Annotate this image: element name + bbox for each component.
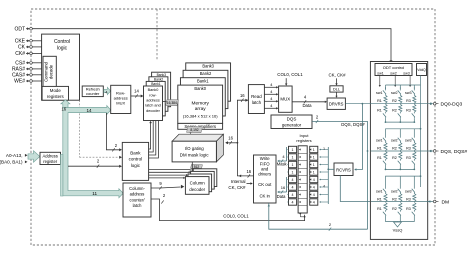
svg-text:sw1: sw1	[377, 71, 383, 75]
svg-text:Bank3: Bank3	[157, 73, 167, 77]
I/O gating DM mask logic block	[172, 134, 223, 162]
svg-text:R3: R3	[406, 99, 411, 103]
wire RCVRS to DM net	[340, 176, 371, 202]
svg-text:register: register	[43, 159, 58, 164]
svg-text:CK#: CK#	[15, 51, 25, 57]
svg-text:COL0, COL1: COL0, COL1	[223, 214, 249, 219]
svg-text:WE#: WE#	[14, 79, 25, 85]
svg-text:4: 4	[313, 178, 315, 182]
DQS net wire and pin DQS, DQS#	[370, 149, 467, 155]
svg-text:4: 4	[105, 90, 107, 94]
input pin RAS#	[12, 67, 32, 73]
column-address counter/latch block	[123, 183, 151, 217]
address register block	[40, 152, 61, 164]
svg-text:Column: Column	[190, 181, 206, 186]
bank row-address latch/decoder stack	[144, 72, 171, 120]
svg-text:1: 1	[313, 148, 315, 152]
bus label 16,384 ribbon	[166, 100, 179, 106]
svg-text:MUX: MUX	[116, 101, 125, 106]
svg-text:16: 16	[240, 93, 245, 98]
wire CS# to command decode	[32, 62, 43, 64]
svg-text:14: 14	[134, 89, 139, 94]
svg-text:DRVRS: DRVRS	[329, 102, 344, 107]
svg-text:R1: R1	[377, 99, 382, 103]
svg-text:DQS, DQS#: DQS, DQS#	[341, 122, 365, 127]
input pin ODT	[14, 26, 32, 32]
memory array bank stack	[178, 63, 231, 123]
svg-text:array: array	[195, 106, 207, 112]
svg-text:counter: counter	[86, 91, 100, 96]
svg-text:decoder: decoder	[146, 109, 160, 113]
row-address MUX block	[111, 85, 131, 113]
svg-text:R2: R2	[392, 156, 397, 160]
svg-text:sw2: sw2	[391, 138, 398, 142]
input pin CAS#	[12, 73, 32, 79]
input registers label	[296, 133, 311, 143]
chip boundary dashed border	[31, 9, 435, 245]
bus label (x16) ribbon	[190, 169, 205, 173]
svg-text:1: 1	[313, 163, 315, 167]
address register to bus trunk	[61, 155, 63, 197]
control logic block	[42, 34, 80, 100]
svg-text:R3: R3	[406, 109, 411, 113]
wire ODT to ODT control	[32, 29, 392, 64]
ODT switch/resistor group DQS, DQS#	[376, 135, 416, 166]
svg-text:R2: R2	[392, 146, 397, 150]
svg-text:16,384: 16,384	[167, 101, 177, 105]
svg-text:4: 4	[313, 186, 315, 190]
svg-text:registers: registers	[47, 94, 65, 99]
wire DQS generator to DQS net (2)	[312, 114, 368, 151]
label internal CK, CK#	[228, 179, 252, 190]
wire CK# to control logic	[32, 52, 41, 54]
svg-text:1: 1	[292, 148, 294, 152]
svg-text:1: 1	[292, 163, 294, 167]
svg-text:R2: R2	[392, 207, 397, 211]
label CK, CK# into DLL	[328, 72, 346, 85]
svg-text:Read: Read	[251, 94, 262, 99]
svg-text:R1: R1	[377, 109, 382, 113]
refresh counter block	[82, 86, 103, 97]
svg-text:DM: DM	[442, 199, 450, 205]
svg-text:1: 1	[313, 171, 315, 175]
svg-text:RCVRS: RCVRS	[336, 167, 351, 172]
svg-text:(BA0, BA1): (BA0, BA1)	[0, 160, 23, 165]
dashed control path to bank control logic	[79, 100, 122, 159]
wire CKE to control logic	[32, 40, 41, 42]
svg-text:decoder: decoder	[189, 187, 205, 192]
svg-text:CK out: CK out	[258, 182, 272, 187]
wire CK to control logic	[32, 46, 41, 48]
svg-text:sw3: sw3	[403, 71, 409, 75]
svg-text:Data: Data	[302, 103, 312, 108]
svg-text:sw3: sw3	[405, 189, 412, 193]
svg-text:16: 16	[281, 185, 286, 190]
svg-text:sw3: sw3	[405, 91, 412, 95]
input pin CS#	[15, 61, 32, 67]
svg-text:control: control	[129, 157, 143, 162]
svg-text:decode: decode	[49, 64, 54, 79]
wire COL0,COL1 up into registers	[299, 213, 305, 218]
input pin CK#	[15, 51, 32, 57]
svg-text:Internal: Internal	[231, 179, 246, 184]
svg-text:Column-: Column-	[129, 186, 145, 191]
wire CAS# to command decode	[32, 74, 43, 76]
svg-text:row-: row-	[149, 93, 157, 97]
svg-text:sw1: sw1	[376, 189, 383, 193]
column decoder stack	[185, 169, 216, 195]
ODT control block	[375, 64, 412, 76]
svg-text:latch and: latch and	[145, 104, 160, 108]
svg-text:CK in: CK in	[259, 193, 270, 198]
svg-text:Data: Data	[277, 194, 286, 199]
svg-text:COL0, COL1: COL0, COL1	[277, 72, 303, 77]
svg-text:512: 512	[194, 165, 200, 169]
wire I/O gating to read latch and write FIFO (16)	[225, 93, 253, 177]
wire sense amplifiers to I/O gating	[189, 129, 192, 134]
svg-text:latch: latch	[252, 100, 262, 105]
command decode block	[43, 56, 56, 87]
svg-text:1: 1	[323, 147, 325, 151]
svg-text:14: 14	[86, 108, 92, 113]
wire latch to memory array	[163, 100, 178, 103]
DM net wire and pin DM	[371, 199, 449, 205]
svg-text:Mask: Mask	[277, 162, 288, 167]
wire counter to column decoder (9)	[151, 181, 184, 190]
svg-text:8,192: 8,192	[190, 128, 198, 132]
input pin WE#	[14, 79, 32, 85]
svg-text:logic: logic	[57, 45, 68, 51]
svg-text:Bank1: Bank1	[197, 79, 209, 84]
svg-text:MUX: MUX	[280, 97, 290, 102]
DRVRS block	[327, 98, 345, 109]
DQ net wire and pin DQ0-DQ3	[345, 102, 462, 108]
svg-text:DQS: DQS	[287, 117, 297, 122]
dashed divider line top	[156, 9, 158, 60]
svg-text:4: 4	[313, 193, 315, 197]
svg-text:address: address	[130, 192, 145, 197]
svg-text:Bank: Bank	[130, 151, 141, 156]
ODT switch/resistor group DM	[376, 186, 416, 217]
svg-text:1: 1	[313, 156, 315, 160]
svg-text:sw3: sw3	[405, 138, 412, 142]
ODT block outer box	[370, 62, 427, 240]
address bus (thick)	[61, 100, 123, 198]
ODT inter-group rails below DQ0-DQ3	[385, 118, 422, 134]
input registers grid	[287, 146, 328, 213]
sense amplifiers strip	[178, 123, 223, 129]
svg-text:11: 11	[92, 191, 97, 196]
wire MUX to DRVRS (4, Data)	[292, 94, 327, 107]
svg-text:CS#: CS#	[15, 61, 25, 67]
svg-text:DLL: DLL	[333, 87, 340, 91]
svg-text:Mode: Mode	[50, 88, 62, 93]
svg-text:16: 16	[246, 169, 251, 174]
svg-text:R3: R3	[406, 197, 411, 201]
svg-text:Bank3: Bank3	[202, 64, 214, 69]
svg-text:VddQ: VddQ	[417, 68, 426, 72]
svg-text:latch: latch	[133, 203, 142, 208]
svg-text:R3: R3	[406, 207, 411, 211]
svg-text:4: 4	[323, 185, 325, 189]
wires read latch to MUX (4x4)	[264, 82, 278, 109]
DLL block	[330, 86, 343, 92]
wire data registers to FIFO (16, Data)	[277, 177, 287, 199]
bus label 8,192 ribbon	[187, 127, 203, 133]
wire mask registers to FIFO (4, Mask)	[277, 147, 288, 167]
wire MUX to bank row-address latch, 14	[131, 89, 144, 98]
wire DQ net down to RCVRS	[354, 103, 363, 171]
svg-text:R1: R1	[377, 146, 382, 150]
ODT switch/resistor group DQ0-DQ3	[376, 87, 416, 118]
wire DQS to CK in	[268, 150, 369, 231]
wire RAS# to command decode	[32, 68, 43, 70]
wire COL0,COL1 from counter	[151, 193, 305, 220]
svg-text:CKE: CKE	[15, 39, 26, 45]
svg-text:Memory: Memory	[192, 100, 210, 106]
svg-text:4: 4	[292, 193, 294, 197]
label COL0, COL1 into MUX	[277, 72, 303, 86]
wire WE# to command decode	[32, 80, 43, 82]
svg-text:16: 16	[228, 136, 233, 141]
svg-text:generator: generator	[282, 123, 302, 128]
input pin CKE	[15, 39, 33, 45]
svg-text:ODT: ODT	[14, 26, 25, 32]
input pin A0-A13 (BA0, BA1)	[0, 151, 40, 165]
mode registers block	[42, 86, 68, 100]
svg-text:sw2: sw2	[391, 91, 398, 95]
svg-text:4: 4	[313, 201, 315, 205]
svg-text:DQ0-DQ3: DQ0-DQ3	[441, 102, 463, 108]
svg-text:4: 4	[292, 178, 294, 182]
svg-text:R2: R2	[392, 109, 397, 113]
svg-text:Bank1: Bank1	[151, 82, 161, 86]
ODT group1 VddQ top rail	[386, 85, 421, 89]
svg-text:CK, CK#: CK, CK#	[328, 72, 346, 77]
ODT control drive arrows	[379, 76, 412, 88]
svg-text:R1: R1	[377, 197, 382, 201]
MUX block	[279, 86, 293, 112]
svg-text:Bank2: Bank2	[200, 71, 212, 76]
svg-text:(16,384 x 512 x 16): (16,384 x 512 x 16)	[183, 114, 219, 119]
wires bank control to column decoders	[149, 168, 194, 179]
svg-text:R2: R2	[392, 197, 397, 201]
svg-text:CK: CK	[18, 45, 26, 51]
svg-text:Bank0: Bank0	[194, 86, 206, 91]
svg-text:registers: registers	[296, 138, 311, 143]
svg-text:R2: R2	[392, 99, 397, 103]
bus label 512 ribbon	[191, 164, 203, 168]
RCVRS block	[334, 163, 353, 176]
svg-text:Bank0: Bank0	[148, 88, 159, 92]
svg-text:16: 16	[61, 107, 66, 112]
wire address bus to bank control (2)	[68, 159, 122, 168]
svg-text:R3: R3	[406, 146, 411, 150]
svg-text:drivers: drivers	[258, 172, 271, 177]
bus refresh counter to row-address MUX	[104, 87, 111, 94]
VssQ ground	[386, 217, 415, 233]
svg-text:sw2: sw2	[390, 71, 396, 75]
svg-text:R3: R3	[406, 156, 411, 160]
VddQ rail	[420, 76, 422, 188]
wires bank control to row-address latches	[149, 109, 160, 158]
wire control to bank control (2) from MUX bottom	[106, 113, 122, 151]
svg-text:DQS, DQS#: DQS, DQS#	[441, 149, 468, 155]
wire I/O gating to column decoder	[191, 162, 194, 176]
svg-text:sw1: sw1	[376, 91, 383, 95]
svg-text:Address: Address	[43, 154, 58, 159]
svg-text:logic: logic	[131, 163, 141, 168]
svg-text:DM mask logic: DM mask logic	[180, 152, 210, 157]
wire DLL to DRVRS	[335, 92, 337, 98]
svg-text:sw1: sw1	[376, 138, 383, 142]
svg-text:Bank2: Bank2	[154, 77, 164, 81]
svg-text:I/O gating: I/O gating	[185, 146, 205, 151]
svg-text:counter/: counter/	[130, 197, 146, 202]
svg-text:4: 4	[292, 186, 294, 190]
VddQ box	[417, 64, 427, 76]
svg-text:R1: R1	[377, 207, 382, 211]
svg-text:Control: Control	[54, 39, 70, 45]
bank control logic block	[122, 142, 148, 180]
write FIFO and drivers block	[254, 155, 277, 203]
svg-text:R1: R1	[377, 156, 382, 160]
svg-text:1: 1	[292, 171, 294, 175]
input pin CK	[18, 45, 32, 51]
wire RCVRS to input registers	[323, 147, 334, 204]
read latch block	[248, 85, 264, 114]
svg-text:A0-A13,: A0-A13,	[6, 153, 23, 158]
DQS generator block	[271, 115, 312, 129]
svg-text:4: 4	[292, 201, 294, 205]
svg-text:VssQ: VssQ	[393, 228, 403, 233]
svg-text:CAS#: CAS#	[12, 73, 25, 79]
svg-text:1: 1	[292, 156, 294, 160]
ODT inter-group rails below DQS, DQS#	[385, 166, 422, 186]
svg-text:sw2: sw2	[391, 189, 398, 193]
svg-text:address: address	[146, 99, 160, 103]
svg-text:ODT control: ODT control	[383, 65, 405, 70]
svg-text:CK, CK#: CK, CK#	[228, 185, 246, 190]
